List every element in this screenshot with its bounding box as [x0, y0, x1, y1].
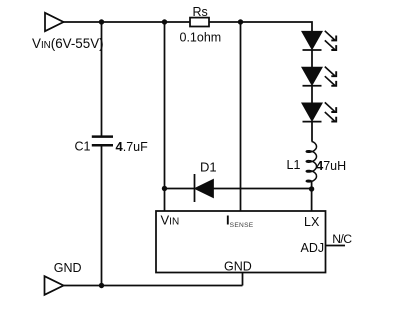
junction node D	[162, 186, 167, 191]
svg-text:GND: GND	[224, 260, 252, 274]
wire inductor L1 to node E	[311, 181, 313, 189]
wire top rail (node C to LED branch corner)	[241, 22, 313, 32]
svg-text:ADJ: ADJ	[301, 241, 325, 255]
svg-text:L1: L1	[287, 158, 301, 172]
capacitor C1	[92, 137, 113, 146]
junction node B	[162, 19, 167, 24]
wire top rail (node A to node B)	[102, 21, 165, 23]
wire LED D4 to inductor L1	[311, 122, 313, 141]
wire VIN-pin branch (node D to U1 VIN pin)	[164, 189, 166, 212]
svg-text:LX: LX	[304, 215, 320, 229]
svg-text:4.7uF: 4.7uF	[116, 139, 149, 154]
wire top rail (node B to Rs left)	[165, 21, 191, 23]
LED D4	[303, 103, 322, 121]
junction node A	[99, 19, 104, 24]
wire VIN-pin branch (node B to diode node D)	[164, 22, 166, 189]
wire C1 branch lower (C1 bottom plate to ground rail)	[101, 146, 103, 286]
wire LED D2 to LED D3	[311, 50, 313, 68]
junction ground rail node	[99, 283, 104, 288]
wire LED D3 to LED D4	[311, 86, 313, 104]
junction node E	[309, 186, 314, 191]
wire diode D1 anode to node E	[213, 188, 312, 190]
svg-text:N/C: N/C	[332, 232, 352, 246]
junction node C	[238, 19, 243, 24]
ground terminal GND	[45, 276, 64, 295]
LED D2 light arrows	[325, 31, 336, 50]
resistor Rs	[190, 18, 209, 27]
svg-text:GND: GND	[54, 261, 82, 275]
svg-text:D1: D1	[200, 160, 217, 175]
wire ISENSE branch (node C to U1 ISENSE pin)	[240, 22, 242, 211]
LED D4 light arrows	[325, 102, 336, 121]
wire U1 GND pin drop	[242, 273, 244, 286]
IC U1 body	[156, 211, 326, 273]
wire top rail left (VIN terminal to node A)	[64, 21, 102, 23]
svg-text:Rs: Rs	[193, 5, 208, 19]
wire node D to diode D1 cathode	[165, 188, 195, 190]
svg-text:47uH: 47uH	[316, 158, 346, 173]
wire ground rail	[64, 285, 243, 287]
wire node E to U1 LX pin	[311, 189, 313, 211]
LED D3 light arrows	[325, 67, 336, 86]
LED D3	[303, 68, 322, 86]
wire ADJ pin stub N/C	[326, 245, 346, 247]
diode D1	[195, 174, 214, 202]
input terminal VIN	[45, 13, 64, 31]
wire C1 branch upper (node A to C1 top plate)	[101, 22, 103, 136]
LED D2	[303, 32, 322, 50]
inductor L1	[306, 141, 316, 182]
wire top rail (Rs right to node C)	[209, 21, 241, 23]
svg-text:C1: C1	[75, 140, 91, 154]
svg-text:0.1ohm: 0.1ohm	[180, 31, 222, 45]
